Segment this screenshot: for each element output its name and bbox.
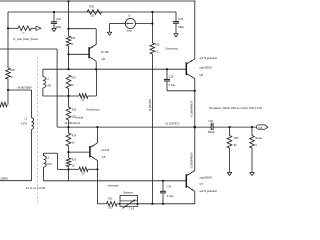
port input net flag xyxy=(36,26,41,30)
node trimmer left xyxy=(119,203,121,205)
svg-text:6800µ: 6800µ xyxy=(208,131,216,134)
wire Q5 collector up xyxy=(96,127,98,143)
wire Ibias left lead xyxy=(110,23,126,25)
label RLast xyxy=(255,136,262,140)
wire RLast lower lead xyxy=(251,148,253,172)
svg-text:Q6: Q6 xyxy=(102,57,106,61)
wire right supply drop to Q8 collector xyxy=(194,1,196,59)
wire left rail corner drop xyxy=(7,12,9,68)
label erhoeht xyxy=(76,115,84,119)
capacitor C32 xyxy=(51,22,57,24)
wire C32 bottom lead xyxy=(53,23,55,28)
label Balance xyxy=(124,190,134,194)
label C30 xyxy=(169,74,174,78)
node trimmer right xyxy=(136,203,138,205)
wire R33 to trimmer xyxy=(117,203,120,205)
wire Q7 collector up xyxy=(194,127,196,170)
label R24 value xyxy=(72,141,75,144)
resistor R24 xyxy=(66,133,71,146)
label Q6 AC128 xyxy=(101,50,109,54)
wire R32 upper lead xyxy=(229,127,231,135)
svg-text:R38: R38 xyxy=(90,6,95,9)
node Q6 base tie xyxy=(67,53,69,55)
label R33 xyxy=(108,197,113,200)
ground RLast xyxy=(250,172,255,175)
label R25 value xyxy=(72,164,75,167)
resistor R36 xyxy=(66,36,71,46)
wire L1 bottom xyxy=(0,130,32,181)
label Q7 wire voltage xyxy=(190,152,194,169)
svg-text:C29: C29 xyxy=(178,17,183,21)
wire input stub xyxy=(8,27,18,29)
resistor R_Last_linker_Kanal xyxy=(18,26,36,31)
resistor R27 horizontal xyxy=(79,94,88,99)
wire L2 bottom net xyxy=(43,95,79,97)
node rail C Q6 collector junction xyxy=(95,68,97,70)
node minus34V junction xyxy=(7,89,9,91)
label C29 value 680u xyxy=(178,25,184,29)
svg-text:K1 L1 L2 L3 0.98: K1 L1 L2 L3 0.98 xyxy=(26,187,46,190)
capacitor C18 series xyxy=(211,123,213,130)
inductor L1 xyxy=(32,118,34,130)
label R23 value xyxy=(82,173,85,176)
wire second rail xyxy=(8,11,176,13)
wire trimmer wiper loop xyxy=(120,195,138,201)
label C30 value xyxy=(169,83,176,87)
label 21.25k xyxy=(65,121,81,125)
resistor RLast xyxy=(250,136,255,149)
node Q5 emitter R23 junction xyxy=(96,168,98,170)
label R35 value xyxy=(155,50,159,53)
label R35 xyxy=(155,43,160,46)
node rail A tap xyxy=(67,0,69,2)
label R29 value xyxy=(71,84,74,87)
wire trimmer to mid junction xyxy=(138,203,164,205)
label R26 value xyxy=(72,115,77,118)
label R38 xyxy=(90,6,95,9)
resistor R23 horizontal xyxy=(79,167,88,172)
label R30 value xyxy=(11,76,14,79)
svg-text:auf Si geändert: auf Si geändert xyxy=(200,189,218,193)
wire RLast upper lead xyxy=(251,127,253,135)
svg-text:RLast: RLast xyxy=(255,136,262,140)
node rail C C30 tap xyxy=(166,68,168,70)
wire R30 to node xyxy=(7,79,9,90)
label L1 xyxy=(25,119,28,121)
node rail B junction R35 xyxy=(151,11,153,13)
svg-text:C30: C30 xyxy=(169,74,174,78)
svg-text:Ibias: Ibias xyxy=(127,29,133,32)
node Ibias junction xyxy=(151,22,153,24)
svg-text:Q7: Q7 xyxy=(200,182,204,186)
svg-text:R32: R32 xyxy=(234,136,239,140)
label R36 xyxy=(71,37,76,40)
svg-text:R26: R26 xyxy=(72,108,77,111)
wire top supply rail xyxy=(0,0,196,2)
label R24 xyxy=(72,134,77,137)
svg-text:R30: R30 xyxy=(11,69,16,72)
coupling line K1 xyxy=(36,57,38,203)
wire bottom left segment xyxy=(97,203,106,205)
svg-text:500: 500 xyxy=(109,207,114,210)
ground R32 xyxy=(227,172,232,175)
wire R36 to base node xyxy=(68,46,70,69)
label Q8 egal BD xyxy=(200,66,213,70)
wire chain seg2 xyxy=(68,120,70,133)
label L3 xyxy=(46,157,49,160)
wire rail C xyxy=(43,68,186,70)
wire R32 lower lead xyxy=(229,148,231,172)
transistor Q6 AC128 xyxy=(89,44,96,61)
capacitor C29 xyxy=(173,22,179,24)
capacitor C31 xyxy=(160,191,166,193)
wire Q6 base xyxy=(69,53,89,55)
ground C32 xyxy=(52,28,57,31)
node x68 bottom junction xyxy=(67,95,69,97)
current source I3 xyxy=(125,18,135,28)
wire chain seg4 xyxy=(68,167,70,181)
svg-text:Simulation: 20kHz 10W an 4 Ohm: Simulation: 20kHz 10W an 4 Ohm THD 0,13% xyxy=(209,106,263,110)
label R30 xyxy=(11,69,16,72)
wire chain seg3 xyxy=(68,146,70,158)
label C18 xyxy=(208,120,213,123)
label Q6 xyxy=(102,57,106,61)
inductor L2 xyxy=(43,69,46,96)
label L2 value xyxy=(46,84,51,87)
wire long mid vertical xyxy=(151,54,153,204)
node output junction big xyxy=(194,126,197,129)
wire node to L1 top xyxy=(8,90,32,118)
svg-text:T: 0.5: T: 0.5 xyxy=(129,209,135,210)
label C31 xyxy=(167,185,172,189)
wire R23 right xyxy=(88,168,97,170)
resistor R26 xyxy=(66,107,71,120)
wire C30 lower lead xyxy=(167,82,195,91)
wire rail D xyxy=(44,180,187,182)
label RLast value xyxy=(255,143,257,147)
svg-text:R29: R29 xyxy=(71,77,76,80)
label Q5 xyxy=(102,155,106,159)
svg-text:AC128: AC128 xyxy=(101,50,109,54)
wire feedback horizontal xyxy=(0,48,57,50)
svg-text:C31: C31 xyxy=(167,185,172,189)
label C29 xyxy=(178,17,183,21)
label Q7 xyxy=(200,182,204,186)
svg-text:-21.189787V: -21.189787V xyxy=(165,121,180,125)
svg-text:erhöht: erhöht xyxy=(76,115,84,119)
svg-text:-0.26084963V: -0.26084963V xyxy=(190,152,194,169)
svg-text:680µ: 680µ xyxy=(55,25,61,29)
node C31 bottom junction xyxy=(162,203,164,205)
wire Q5 base xyxy=(69,151,90,153)
svg-text:680µ: 680µ xyxy=(178,25,184,29)
resistor R35 Sicherung xyxy=(150,43,155,54)
wire C32 top lead xyxy=(53,12,55,22)
wire output rail left xyxy=(57,126,211,128)
node rail D C31 tap xyxy=(162,180,164,182)
wire L3 top xyxy=(44,152,58,154)
resistor R25 xyxy=(66,158,71,167)
wire C30 upper lead xyxy=(166,69,168,79)
transistor Q7 xyxy=(186,171,195,192)
label Q8 wire voltage xyxy=(190,100,194,117)
label Q5 AC128 xyxy=(101,148,109,152)
port out flag xyxy=(256,125,268,129)
svg-text:R25: R25 xyxy=(72,159,77,162)
node output rail chain junction xyxy=(67,126,69,128)
svg-text:Q5: Q5 xyxy=(102,155,106,159)
trimmer Balance xyxy=(120,200,138,209)
wire Q5 emitter down xyxy=(96,160,98,203)
node RLast tap xyxy=(251,126,253,128)
label R29 xyxy=(71,77,76,80)
svg-text:0.33µ: 0.33µ xyxy=(169,83,176,87)
label C18 value xyxy=(208,131,216,134)
wire R23 left xyxy=(69,168,80,170)
svg-text:out: out xyxy=(259,125,263,129)
wire Q7 emitter down xyxy=(163,191,195,204)
svg-text:0.97H: 0.97H xyxy=(21,123,27,125)
label Q8 xyxy=(200,73,204,77)
label mid wire voltage xyxy=(150,98,152,112)
label L1 value xyxy=(21,123,27,125)
resistor R38 xyxy=(87,10,102,15)
node R32 tap xyxy=(228,126,230,128)
node Q8 C30 junction xyxy=(194,90,196,92)
label Ibias xyxy=(127,29,133,32)
svg-text:Q8: Q8 xyxy=(200,73,204,77)
svg-text:R24: R24 xyxy=(72,134,77,137)
node mid vertical bottom junction xyxy=(151,203,153,205)
wire C31 upper lead xyxy=(162,181,164,192)
label R32 value xyxy=(234,143,237,147)
wire Ibias right lead xyxy=(136,23,153,25)
svg-text:Sicherung: Sicherung xyxy=(166,46,179,50)
label Q7 auf Si geaendert xyxy=(200,189,218,193)
svg-text:Balance: Balance xyxy=(124,190,134,194)
label L2 xyxy=(46,78,49,81)
svg-text:-34.465168V: -34.465168V xyxy=(150,98,152,112)
label R38 value xyxy=(91,15,96,18)
svg-text:0.8H: 0.8H xyxy=(46,84,51,87)
wire x68 top segment xyxy=(68,1,70,36)
svg-text:auf Si geändert: auf Si geändert xyxy=(200,56,218,60)
svg-text:21.25k/10mA: 21.25k/10mA xyxy=(65,121,81,125)
wire L3 tap step xyxy=(58,153,69,169)
wire Q6 collector down xyxy=(95,61,97,69)
wire R35 upper lead xyxy=(151,12,153,43)
ground C29 xyxy=(174,34,179,37)
svg-text:-34.867089V: -34.867089V xyxy=(17,86,33,90)
label R25 xyxy=(72,159,77,162)
wire C29 corner xyxy=(175,12,177,22)
wire output rail right xyxy=(213,126,256,128)
label R27 value xyxy=(82,99,85,102)
label simulation note xyxy=(209,106,263,110)
wire Q8 emitter down xyxy=(194,79,196,128)
node rail C x68 junction xyxy=(67,68,69,70)
wire chain seg1 xyxy=(68,89,70,108)
svg-text:2.2886V: 2.2886V xyxy=(0,176,8,180)
label verbindet xyxy=(108,184,119,188)
wire C29 bottom lead xyxy=(175,23,177,34)
node Q6 emitter tie xyxy=(67,28,69,30)
label value 1k xyxy=(22,32,25,34)
label R33 value xyxy=(109,207,114,210)
label K1 statement xyxy=(26,187,46,190)
wire C31 lower lead xyxy=(162,194,164,204)
label R32 xyxy=(234,136,239,140)
label Sicherung xyxy=(166,46,179,50)
label I3 xyxy=(128,15,131,18)
transistor Q5 AC128 xyxy=(90,143,98,161)
label C31 value xyxy=(167,194,174,198)
node Q5 collector junction xyxy=(96,126,98,128)
label C32 xyxy=(56,17,61,21)
resistor R32 xyxy=(227,136,232,149)
label Q7 egal BD xyxy=(200,175,213,179)
node input junction xyxy=(7,27,9,29)
label R_Last_linker_Kanal xyxy=(14,37,38,41)
node C32 tap xyxy=(53,11,55,13)
svg-text:R_Last_linker_Kanal: R_Last_linker_Kanal xyxy=(14,37,38,41)
svg-text:AC128: AC128 xyxy=(101,148,109,152)
node Q5 base node xyxy=(67,151,69,153)
label Q8 auf Si geaendert xyxy=(200,56,218,60)
svg-text:R36: R36 xyxy=(71,37,76,40)
svg-text:egal BD/Si: egal BD/Si xyxy=(200,66,213,70)
svg-text:0.33µ: 0.33µ xyxy=(167,194,174,198)
wire R27 to corner xyxy=(88,69,96,96)
svg-text:Ruhestrom: Ruhestrom xyxy=(87,108,101,112)
svg-text:150: 150 xyxy=(91,15,96,18)
label Ruhestrom xyxy=(87,108,101,112)
resistor left edge clipped xyxy=(0,102,7,107)
label node voltage -34.867089V xyxy=(17,86,33,90)
label R26 xyxy=(72,108,77,111)
resistor R33 horizontal xyxy=(107,202,118,207)
ground Ibias xyxy=(107,24,112,36)
capacitor C30 xyxy=(164,79,170,81)
wire feedback vertical xyxy=(56,49,58,127)
svg-text:R33: R33 xyxy=(108,197,113,200)
svg-text:C32: C32 xyxy=(56,17,61,21)
label output voltage xyxy=(165,121,180,125)
wire left edge drop xyxy=(7,90,9,105)
svg-text:-0.26084963V: -0.26084963V xyxy=(190,100,194,117)
svg-text:C18: C18 xyxy=(208,120,213,123)
transistor Q8 xyxy=(186,59,195,79)
inductor L3 xyxy=(44,153,47,181)
label R36 value xyxy=(71,43,74,46)
resistor R30 xyxy=(6,68,11,79)
label L3 value xyxy=(46,163,51,166)
label trimmer value xyxy=(129,209,135,211)
svg-text:verbindet: verbindet xyxy=(108,184,119,188)
svg-text:0.8H: 0.8H xyxy=(46,163,51,166)
label C32 value 680u xyxy=(55,25,61,29)
svg-text:egal BD/Si: egal BD/Si xyxy=(200,175,213,179)
label node voltage -2.2886V xyxy=(0,176,8,180)
wire Q6 emitter up xyxy=(69,29,97,45)
node R25 bottom junction xyxy=(67,168,69,170)
resistor R29 xyxy=(66,75,71,89)
svg-text:R35: R35 xyxy=(155,43,160,46)
